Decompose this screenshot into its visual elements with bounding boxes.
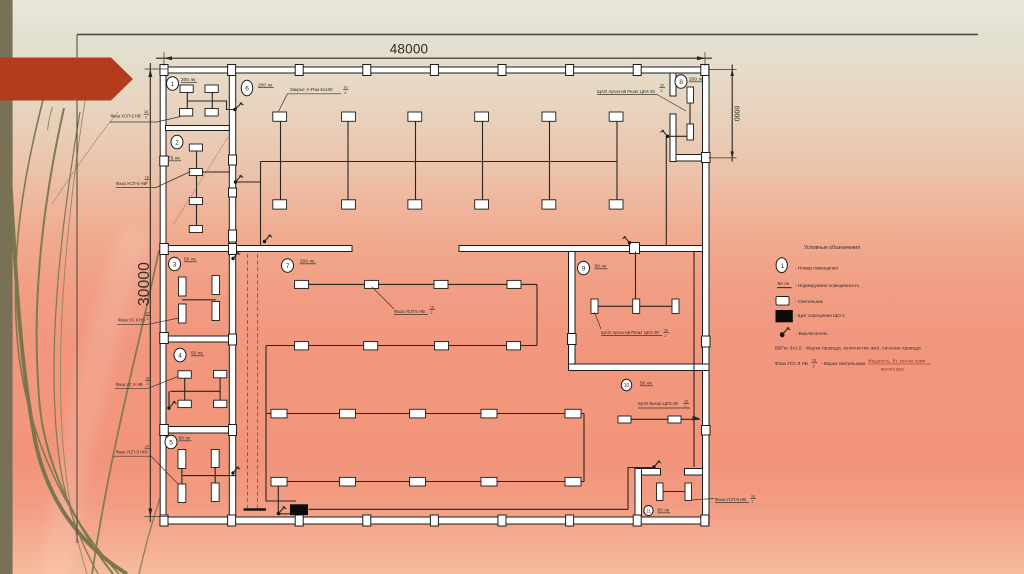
frame border left line [76, 35, 78, 544]
svg-text:2: 2 [147, 317, 149, 321]
illumination label room 1 [181, 77, 197, 83]
annex room8 wires [666, 103, 694, 467]
svg-text:Условные обозначения: Условные обозначения [804, 245, 860, 251]
svg-text:30000: 30000 [136, 262, 153, 306]
svg-text:высота фаз: высота фаз [881, 367, 904, 372]
junction markers wall A [229, 155, 237, 436]
svg-text:- Нормируемая освещённость: - Нормируемая освещённость [795, 283, 860, 288]
switch room5 on wall A [231, 467, 240, 475]
column markers top wall [160, 65, 709, 76]
svg-text:ВВГнг 3х1,5 - Марка провода,: ВВГнг 3х1,5 - Марка провода, количество … [775, 346, 921, 351]
room5 wiring [182, 468, 236, 485]
room2 fixtures [189, 144, 202, 233]
outer wall top [160, 67, 709, 73]
middle hall fixtures row2 [295, 342, 521, 350]
column markers right wall [702, 153, 711, 436]
outer wall right [703, 67, 710, 524]
svg-text:Фаза УСП-5 НВ: Фаза УСП-5 НВ [116, 449, 146, 454]
switch room8 annex [661, 130, 670, 138]
svg-text:16: 16 [144, 110, 148, 114]
olive side bar [0, 0, 13, 574]
illumination label room 7 [300, 259, 316, 265]
svg-text:ЩАО Висор ЦЕХ-30: ЩАО Висор ЦЕХ-30 [638, 401, 679, 406]
legend item switch [780, 327, 828, 337]
svg-text:3: 3 [173, 262, 177, 269]
interior wall C right y248 [459, 246, 703, 252]
olive curve 3 (thick) [11, 190, 127, 574]
room circle 6 [241, 80, 252, 96]
olive curve 1 [15, 100, 119, 574]
svg-text:30: 30 [660, 84, 664, 88]
left outside label room3 [117, 312, 179, 325]
bottom hall wires [266, 414, 584, 513]
room1 wiring [187, 93, 234, 110]
interior wall A vertical x232 [229, 73, 235, 517]
annotation room10 label [638, 400, 690, 410]
olive curve 5 [60, 64, 91, 574]
svg-text:2: 2 [146, 181, 148, 185]
switch room3 on wall A [231, 252, 240, 260]
switch room9 on top wall [623, 236, 632, 244]
column marker room9 top wall [630, 243, 640, 254]
svg-text:2: 2 [665, 334, 667, 338]
svg-text:10: 10 [624, 383, 630, 389]
svg-text:Фаза УС 9 НВ: Фаза УС 9 НВ [116, 382, 143, 387]
svg-text:Фаза УСП-5 НВ: Фаза УСП-5 НВ [715, 497, 746, 502]
svg-text:16: 16 [751, 495, 755, 499]
svg-text:50 лк: 50 лк [778, 281, 790, 287]
left outside label room5 [113, 445, 177, 484]
middle hall fixtures row1 [295, 280, 522, 288]
room8 fixtures [687, 87, 694, 140]
bottom feed bus wire [309, 468, 656, 510]
room11 top wall right segment [685, 469, 703, 476]
svg-text:2: 2 [146, 450, 148, 454]
interior wall B y127 room1/2 [166, 126, 230, 131]
illumination label room 11 [658, 508, 671, 514]
switches [167, 103, 669, 516]
svg-text:30: 30 [664, 329, 668, 333]
svg-text:4: 4 [344, 91, 346, 95]
svg-text:5: 5 [169, 440, 173, 447]
svg-text:6000: 6000 [733, 106, 740, 122]
frame border top line [77, 34, 978, 36]
svg-text:11: 11 [646, 509, 651, 514]
dashed lines near wall A [247, 254, 249, 508]
switch hall riser at wall C [263, 235, 272, 244]
room3 fixtures [179, 276, 220, 324]
svg-text:16: 16 [146, 312, 150, 316]
illumination label room 5 [179, 436, 192, 442]
junction marker room9 left wall [568, 334, 577, 345]
svg-text:Фаза УСП 5 НВ: Фаза УСП 5 НВ [394, 309, 425, 314]
svg-text:Фаза УСС 9 НВ: Фаза УСС 9 НВ [775, 361, 808, 366]
svg-text:ЩАО Аргон-ий Реакт ЦЕХ-30: ЩАО Аргон-ий Реакт ЦЕХ-30 [601, 330, 660, 335]
outer wall left [160, 67, 166, 524]
svg-text:2: 2 [752, 500, 754, 504]
room circle 2 [171, 135, 183, 149]
svg-text:14: 14 [145, 445, 149, 449]
room number circles [165, 75, 687, 516]
illumination label room 6 [258, 82, 274, 88]
room10 wires [631, 416, 700, 421]
svg-text:8: 8 [679, 79, 683, 86]
olive curve 4 [54, 112, 98, 574]
room circle 1 [167, 77, 179, 91]
top hall feed riser [260, 162, 262, 246]
svg-text:Фаза УСП-5 НВ: Фаза УСП-5 НВ [111, 113, 141, 118]
svg-text:- Выключатель: - Выключатель [796, 331, 828, 336]
faint diagonal leader room2 [173, 137, 228, 225]
illumination label room 9 [595, 264, 608, 270]
annotation room7 label [372, 287, 435, 315]
room3 wiring [182, 299, 216, 301]
svg-text:2: 2 [147, 382, 149, 386]
svg-text:16: 16 [430, 306, 434, 310]
dimension 6000 line [709, 65, 737, 162]
room9 fixtures [591, 299, 679, 314]
room11 left wall [635, 469, 642, 518]
dimension 30000 line [145, 63, 169, 522]
switch bottom hall near panel [277, 506, 287, 515]
switch room2 on wall A [234, 175, 243, 184]
outer wall bottom [160, 517, 709, 524]
annex L wall horizontal [676, 155, 703, 162]
dimension 48000 line [156, 52, 712, 66]
room9 left wall [569, 252, 576, 371]
svg-text:16: 16 [812, 359, 816, 363]
top hall bus wire [261, 161, 617, 163]
svg-text:Фаза УС 9 НВ: Фаза УС 9 НВ [118, 318, 145, 323]
room11 top wall left segment [635, 469, 661, 476]
illumination label room 4 [191, 351, 204, 357]
column markers left wall [160, 156, 169, 436]
annotation room9 label [595, 312, 670, 338]
room circle 8 [675, 75, 687, 89]
top hall riser wires [281, 121, 618, 200]
annex L wall vertical [670, 114, 676, 162]
interior wall C left y248 [166, 246, 353, 252]
illumination labels [168, 77, 704, 514]
annotation top hall label [279, 86, 349, 112]
middle hall wires [266, 284, 537, 501]
switch room11 [652, 461, 661, 469]
room circle 3 [169, 257, 181, 271]
top hall fixtures row2 [273, 200, 623, 209]
svg-text:7: 7 [286, 263, 290, 270]
thick door mark line [244, 508, 267, 511]
room9 bottom wall [569, 364, 710, 371]
bottom hall fixtures row1 [271, 409, 581, 418]
left outside label room4 [115, 377, 178, 389]
svg-text:- Светильник: - Светильник [795, 299, 824, 304]
right outside label room11 feed [0, 0, 1, 1]
svg-text:9: 9 [582, 266, 586, 273]
switch room4 on left wall [167, 401, 176, 410]
room2 wiring [197, 151, 231, 226]
svg-text:Мощность, Вт, кол-во ламп: Мощность, Вт, кол-во ламп [868, 359, 925, 364]
olive stray sprout below arrow [48, 107, 53, 130]
olive curve 6 faint crossing [52, 112, 118, 204]
left outside label room2 [116, 172, 191, 188]
svg-text:2: 2 [145, 115, 147, 119]
bottom hall fixtures row2 [271, 477, 581, 486]
interior wall E y429 room4/5 [166, 427, 230, 434]
svg-text:2: 2 [685, 405, 687, 409]
legend item illumination [777, 281, 860, 288]
room circle 11 [644, 506, 653, 516]
olive curve 7 right arc [92, 250, 159, 574]
svg-text:- Номер помещения: - Номер помещения [795, 266, 838, 271]
room circle 10 [621, 379, 631, 391]
annotation annex label [597, 84, 686, 112]
pale swirl highlight bottom-left [40, 226, 152, 574]
illumination label room 10 [640, 381, 653, 387]
illumination label room 3 [184, 257, 197, 263]
room circle 9 [578, 261, 590, 275]
room5 fixtures [178, 450, 219, 503]
svg-text:6: 6 [245, 86, 249, 93]
olive curve 8 bottom small [139, 498, 160, 574]
svg-text:30: 30 [344, 86, 348, 90]
svg-text:2: 2 [661, 89, 663, 93]
svg-text:- Щит освещения ЩО-1: - Щит освещения ЩО-1 [795, 313, 845, 318]
switch room1 on wall A [233, 103, 243, 112]
olive curve 2 [37, 108, 113, 574]
legend item fixture [776, 297, 824, 306]
svg-text:2: 2 [813, 365, 815, 369]
svg-text:- Марка светильника: - Марка светильника [821, 361, 866, 366]
red arrow banner [0, 58, 133, 101]
room circle 4 [174, 348, 186, 362]
room4 fixtures [178, 370, 227, 407]
illumination label room 2 [168, 156, 181, 162]
svg-text:16: 16 [146, 377, 150, 381]
legend item panel [776, 310, 846, 322]
svg-text:Фаза УСП-5 НВ: Фаза УСП-5 НВ [116, 181, 146, 186]
interior wall D y339 room3/4 [166, 336, 230, 342]
svg-text:Закрыт А-Ром 6х100: Закрыт А-Ром 6х100 [290, 87, 333, 92]
column markers bottom wall [160, 515, 709, 526]
room2 switch feed wire [237, 181, 261, 183]
room circle 5 [165, 435, 177, 449]
annex stub wall [670, 73, 676, 96]
room11 fixtures [657, 483, 692, 501]
lighting panel black box SchO-1 [290, 504, 308, 515]
svg-text:16: 16 [145, 176, 149, 180]
svg-text:16: 16 [684, 400, 688, 404]
room4 wiring [169, 378, 220, 407]
legend item room number [776, 258, 838, 273]
annotation room11 label [691, 495, 756, 505]
legend fixture note [775, 359, 931, 372]
svg-text:4: 4 [178, 353, 182, 360]
room circle 7 [282, 259, 294, 273]
svg-text:1: 1 [171, 81, 175, 88]
room10 fixtures [618, 416, 681, 423]
room1 fixtures [180, 85, 219, 116]
top hall fixtures row1 [273, 112, 623, 121]
illumination label room 8 [689, 77, 704, 83]
svg-text:ЩАО Аргон-ий Реакт ЦЕХ-30: ЩАО Аргон-ий Реакт ЦЕХ-30 [597, 89, 656, 94]
left outside label room1 [110, 110, 181, 122]
svg-text:2: 2 [431, 311, 433, 315]
svg-text:2: 2 [175, 140, 179, 147]
room11 wires [663, 491, 685, 493]
room9 wires [595, 252, 676, 307]
svg-text:48000: 48000 [390, 42, 429, 57]
